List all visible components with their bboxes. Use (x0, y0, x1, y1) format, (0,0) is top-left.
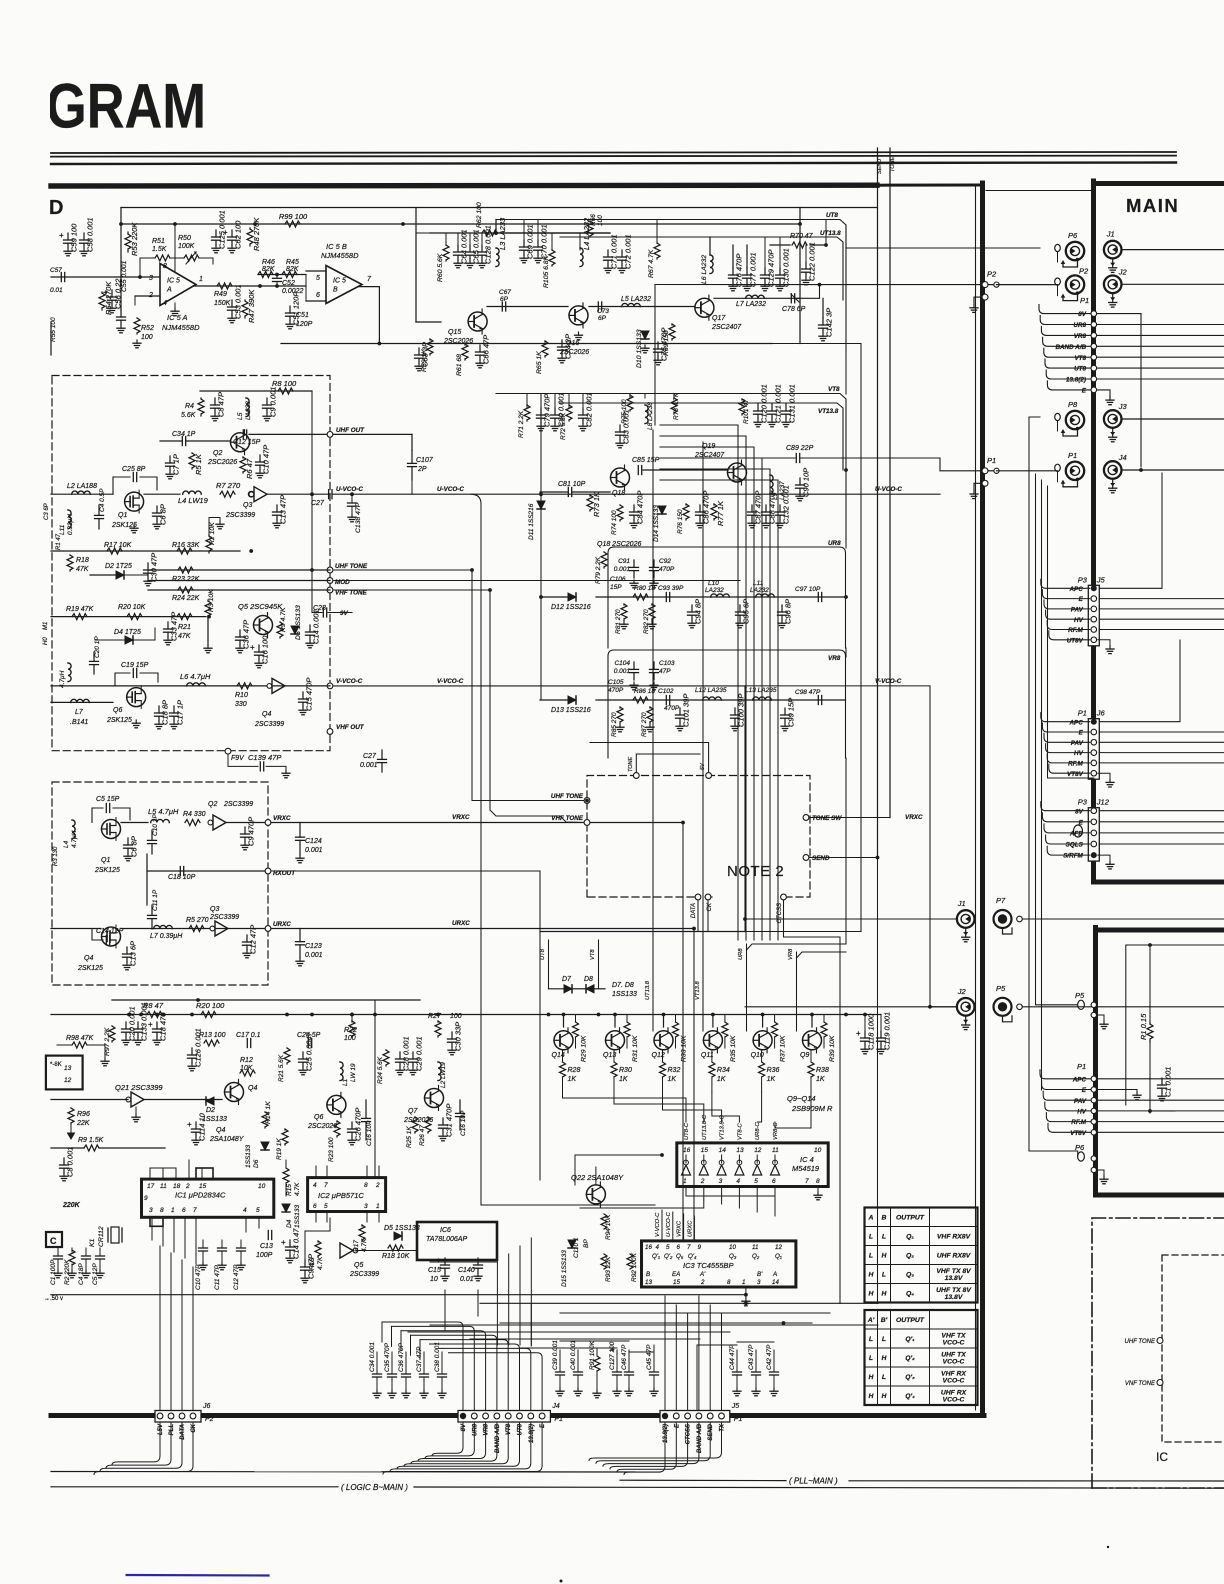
op-amp IC5 B (326, 266, 362, 304)
wire Q19 out (747, 457, 796, 459)
svg-text:7: 7 (687, 1244, 691, 1251)
capacitor C51 120P (286, 292, 301, 329)
transistor Q5 2SC945K (254, 613, 273, 638)
svg-text:D13 1SS216: D13 1SS216 (551, 707, 591, 714)
svg-text:R53 220K: R53 220K (130, 222, 139, 256)
resistor R17 4.7K (359, 1225, 365, 1241)
wire J12 row 1 right (1099, 821, 1224, 823)
inductor L5 LA233 (246, 398, 249, 417)
pin3 wire (121, 276, 160, 278)
J4 riser bundle (382, 1322, 463, 1410)
svg-text:R29 10K: R29 10K (581, 1035, 588, 1062)
svg-text:3: 3 (364, 1203, 368, 1210)
resistor R10 330 (237, 683, 252, 689)
caps row link wires (520, 1347, 617, 1349)
svg-text:1K: 1K (619, 1076, 628, 1083)
page-edge clip over title G (0, 60, 50, 150)
svg-text:5.6K: 5.6K (181, 412, 196, 419)
resistor R33 10K (675, 1015, 677, 1023)
vertical rail x121 (120, 208, 122, 311)
svg-text:0.001: 0.001 (614, 566, 631, 573)
IC1 top pin wires (149, 1168, 151, 1179)
svg-text:C51 120P: C51 120P (292, 292, 301, 325)
resistor R5 1K (189, 453, 203, 475)
capacitor C123 (296, 929, 305, 959)
svg-text:VCO-C: VCO-C (943, 1378, 965, 1385)
capacitor C17 1P (170, 700, 185, 729)
svg-text:10: 10 (814, 1147, 822, 1154)
svg-text:0.001: 0.001 (614, 668, 631, 675)
header rule 3 (51, 163, 1176, 165)
svg-text:1K: 1K (668, 1076, 677, 1083)
svg-text:R16 33K: R16 33K (172, 542, 200, 549)
svg-text:13.8(2): 13.8(2) (663, 1424, 669, 1443)
svg-text:R23 22K: R23 22K (172, 576, 200, 583)
inductor L11 0.33uH (68, 510, 71, 529)
J6 drop curtain (112, 1422, 160, 1465)
svg-text:Q4: Q4 (216, 1127, 225, 1134)
Q22 top wire (595, 1167, 597, 1185)
capacitor C34 0.001 (376, 1352, 378, 1374)
svg-text:14: 14 (772, 1279, 779, 1286)
net label PAV (stackB) (1043, 1091, 1224, 1105)
signal wire Q15-Q17 (487, 306, 568, 308)
svg-text:C27: C27 (311, 500, 325, 507)
VRXC long wire (271, 822, 683, 824)
resistor R16 33K (177, 548, 192, 554)
capacitor C76 470P (729, 254, 744, 291)
svg-text:1: 1 (376, 1203, 380, 1210)
inductor L4 LA232 (580, 217, 591, 267)
capacitor C118 1000 (864, 1015, 866, 1032)
ground C103 (650, 682, 658, 690)
svg-text:C11 47P: C11 47P (214, 1265, 221, 1290)
svg-text:D8: D8 (584, 976, 593, 983)
svg-text:17: 17 (147, 1183, 155, 1190)
junction Q11 (711, 1013, 715, 1017)
wire DATA drop (697, 900, 699, 932)
capacitor C53 0.001 (228, 284, 243, 322)
svg-text:11: 11 (772, 1147, 779, 1154)
svg-text:VNF TONE: VNF TONE (1125, 1381, 1156, 1387)
svg-text:2SC3399: 2SC3399 (223, 801, 253, 808)
resistor R54 270K (99, 281, 113, 315)
ground C123 (296, 958, 304, 966)
svg-text:PLL: PLL (169, 1424, 175, 1436)
svg-text:VCO-C: VCO-C (943, 1359, 965, 1366)
net label VT8V (stackB) (1048, 1123, 1224, 1137)
capacitor C93 39P (666, 593, 669, 602)
svg-text:6: 6 (313, 1203, 317, 1210)
resistor R34 1K (711, 1050, 713, 1062)
svg-text:*-8K: *-8K (50, 1062, 62, 1068)
riser bundle IC2-J4 (496, 1262, 498, 1345)
capacitor C72 0.001 (618, 234, 633, 272)
IC4 buffer 3 (717, 1160, 726, 1175)
svg-text:C62 100: C62 100 (234, 220, 243, 249)
svg-text:C34 1P: C34 1P (172, 431, 196, 438)
wire left entry (51, 276, 121, 278)
capacitor C95 6P (736, 599, 751, 628)
IC4 buffer 5 (753, 1160, 762, 1175)
transistor Q12 2SB909M (654, 1028, 673, 1053)
capacitor C5 bracket (92, 808, 103, 823)
wire Q14 top (563, 1015, 565, 1028)
FET Q4 2SK125 (RX) (102, 925, 121, 948)
svg-text:C58 0.001: C58 0.001 (86, 217, 95, 252)
svg-text:R81 270: R81 270 (615, 609, 622, 634)
svg-text:C122 0.001: C122 0.001 (808, 242, 817, 281)
svg-text:D15 1SS133: D15 1SS133 (561, 1250, 568, 1287)
svg-text:2: 2 (700, 1178, 705, 1185)
svg-text:R25 1K: R25 1K (406, 1126, 413, 1148)
svg-text:UHF TONE: UHF TONE (335, 563, 368, 570)
svg-text:C11 1P: C11 1P (152, 889, 159, 911)
svg-text:R48 270K: R48 270K (252, 217, 261, 251)
svg-text:Q3: Q3 (243, 502, 252, 509)
resistor R65 1K (542, 341, 548, 357)
connector plug P2 (upper) (1055, 267, 1089, 301)
pin L5V of J6/P2 (157, 1413, 163, 1419)
svg-text:DATA: DATA (180, 1424, 186, 1440)
svg-text:R77 1K: R77 1K (716, 500, 725, 526)
svg-text:SEND: SEND (708, 1423, 714, 1440)
wire D2 (90, 574, 116, 576)
svg-text:UHF RX: UHF RX (941, 1390, 967, 1397)
wire D13 (540, 699, 568, 701)
buffer Q21 (126, 1092, 144, 1107)
svg-text:P1: P1 (1080, 296, 1089, 305)
resistor R15 4.7K (285, 1160, 287, 1168)
svg-text:100: 100 (141, 334, 153, 341)
diode D13 1SS216 (568, 696, 576, 704)
svg-text:1K: 1K (767, 1076, 776, 1083)
capacitor C26 470P (348, 1108, 363, 1145)
svg-text:C65 0.001: C65 0.001 (472, 229, 481, 264)
svg-text:C84 470P: C84 470P (636, 491, 645, 524)
wire UT13.8 drop (652, 430, 654, 1031)
svg-text:L13 LA235: L13 LA235 (745, 687, 777, 694)
svg-text:C123: C123 (305, 943, 322, 950)
capacitor C120 0.001 (754, 384, 769, 427)
node VHF TONE (right) (1157, 1380, 1163, 1386)
svg-text:L: L (869, 1234, 873, 1241)
svg-text:Q15: Q15 (448, 329, 461, 336)
svg-text:HV: HV (1077, 1109, 1087, 1116)
capacitor C73 6P (598, 302, 601, 311)
resistor R45 82K (282, 272, 297, 278)
svg-text:C27: C27 (363, 753, 377, 760)
wire P6 feed (846, 247, 1040, 249)
wire to P2 (795, 285, 820, 299)
capacitor C15 470P (299, 678, 314, 715)
svg-text:C12 47P: C12 47P (233, 1264, 240, 1290)
capacitor C14 bracket (92, 929, 103, 941)
capacitor C140 0.01 (474, 1258, 483, 1281)
junction C118 (844, 1013, 848, 1017)
svg-text:L2 LA188: L2 LA188 (67, 483, 97, 490)
transistor Q17 2SC2407 (695, 295, 714, 320)
wire J4 to right (1122, 469, 1224, 471)
svg-text:VHF TX: VHF TX (941, 1333, 966, 1340)
resistor R20 10K (127, 614, 142, 620)
svg-text:10K: 10K (240, 1065, 253, 1072)
svg-text:Q4: Q4 (262, 711, 271, 718)
P1/J6 ground (1098, 773, 1110, 779)
svg-text:0.001: 0.001 (360, 762, 378, 769)
wire VHFTONE drop (490, 590, 584, 823)
pin8 vertical (174, 224, 176, 271)
wire UHFOUT ext (333, 433, 412, 435)
resistor R59 1K (427, 339, 433, 355)
wire R22 branch (350, 1013, 354, 1017)
resistor R39 10K (823, 1015, 825, 1023)
svg-text:UHF TX 8V: UHF TX 8V (936, 1287, 972, 1294)
svg-text:UR8: UR8 (738, 948, 744, 960)
wire Q3 out (267, 493, 330, 495)
wire J6 row 1 right (1099, 731, 1224, 733)
PLL board top thick border (51, 182, 877, 188)
svg-text:C30 33P: C30 33P (454, 1022, 463, 1051)
wire R46 R45 (258, 274, 306, 276)
svg-text:10: 10 (430, 1276, 438, 1283)
svg-text:Q₂: Q₂ (906, 1253, 914, 1260)
diode D4 1SS133 (282, 1204, 290, 1212)
svg-text:C82 0.001: C82 0.001 (585, 392, 594, 427)
svg-text:R31 10K: R31 10K (632, 1035, 639, 1062)
svg-text:C79 470P: C79 470P (543, 394, 552, 427)
MAIN board B bottom thick border (1096, 1193, 1224, 1198)
URXC long wire (271, 928, 694, 930)
diode D12 1SS216 (568, 593, 576, 601)
capacitor C30 47P (144, 553, 159, 586)
capacitor C38 0.001 (441, 1352, 443, 1374)
svg-text:82K: 82K (286, 266, 299, 273)
VHF VCO row (51, 685, 330, 687)
node V-VCO-C (327, 683, 333, 689)
net label RF.M (stackB) (1046, 1113, 1224, 1127)
wire 5V up-left (590, 743, 709, 773)
capacitor C42 47P (773, 1350, 775, 1372)
resistor R27 100 (435, 1021, 441, 1037)
junction Q12 (662, 1013, 666, 1017)
svg-text:C57: C57 (50, 267, 62, 274)
capacitor C4 0.5P (95, 505, 104, 529)
rx mid vertical (146, 854, 148, 905)
wire J2 left (745, 1006, 957, 1008)
bundle top corners (660, 424, 738, 426)
ground R52 (133, 340, 141, 348)
svg-text:C14 0.47: C14 0.47 (292, 1228, 301, 1259)
pin APC of P3/J5 (1041, 579, 1097, 593)
svg-text:BAND A/B: BAND A/B (495, 1423, 501, 1453)
svg-text:C88 470P: C88 470P (768, 491, 777, 524)
svg-text:L7: L7 (75, 709, 84, 716)
svg-text:100K: 100K (178, 243, 195, 250)
svg-text:D2 1T25: D2 1T25 (105, 563, 132, 570)
resistor R47 390K (242, 289, 256, 323)
svg-text:L2 LW19: L2 LW19 (440, 1062, 447, 1088)
svg-text:C3 6P: C3 6P (44, 503, 50, 520)
node RXOUT (265, 868, 271, 874)
resistor R72 5.8K (566, 405, 572, 421)
resistor R36 1K (761, 1050, 763, 1062)
svg-text:D6: D6 (253, 1159, 260, 1168)
svg-text:C26 470P: C26 470P (354, 1108, 363, 1141)
junction Q14 (562, 1013, 566, 1017)
plug P7 (994, 896, 1023, 934)
inductor L10 4.7uH (68, 663, 71, 682)
svg-text:R37 10K: R37 10K (780, 1035, 787, 1062)
resistor R9 1.5K (84, 1145, 99, 1151)
box C label (46, 1232, 62, 1247)
svg-text:Q'₃: Q'₃ (905, 1374, 915, 1381)
svg-text:R60 5.6K: R60 5.6K (437, 253, 444, 282)
svg-text:HV: HV (1074, 750, 1084, 757)
svg-text:Q9: Q9 (800, 1052, 809, 1059)
verticals from RX to IC3 (682, 823, 684, 1241)
inductor L4 4.7uH (RX) (72, 820, 75, 839)
wire R9 (51, 1147, 84, 1149)
jack J1 (lower) (957, 899, 975, 942)
svg-text:R66: R66 (590, 214, 597, 226)
capacitor C9 47P (301, 1254, 316, 1283)
svg-text:13.8(2): 13.8(2) (529, 1424, 535, 1443)
pin 8V of J4/P1 (460, 1413, 466, 1419)
svg-text:2SC3399: 2SC3399 (225, 512, 255, 519)
svg-text:D12 1SS216: D12 1SS216 (551, 604, 591, 611)
capacitor C1 0.001 (1158, 1067, 1173, 1101)
svg-text:470P: 470P (608, 687, 624, 694)
IC4 buffer 4 (735, 1160, 744, 1175)
svg-text:IC1 μPD2834C: IC1 μPD2834C (175, 1191, 226, 1200)
svg-text:R67 4.7K: R67 4.7K (648, 249, 655, 278)
vertical rail x800 (799, 208, 801, 344)
wire C right part (414, 1487, 1224, 1488)
capacitor C78 6P (791, 294, 794, 303)
svg-text:6: 6 (316, 292, 320, 299)
svg-text:16: 16 (645, 1244, 652, 1251)
node MOD (327, 578, 333, 584)
svg-text:R96: R96 (77, 1111, 90, 1118)
svg-text:C128 0.001: C128 0.001 (484, 225, 493, 264)
svg-text:C124: C124 (305, 838, 322, 845)
inductor L3 LA233 (496, 217, 507, 267)
net label HV (stackB) (1045, 1102, 1224, 1116)
MAIN board B left thick border (1093, 928, 1098, 1196)
svg-text:R14 1K: R14 1K (265, 1101, 272, 1124)
capacitor C77 0.001 (743, 252, 758, 290)
feedback wire (140, 257, 155, 259)
svg-text:5: 5 (324, 1203, 328, 1210)
svg-text:C103: C103 (659, 660, 675, 667)
capacitor C36 470P (405, 1352, 407, 1374)
svg-text:R19 1K: R19 1K (276, 1138, 283, 1160)
capacitor C19 bracket (115, 673, 130, 686)
ground C91 (630, 580, 638, 588)
pin 8V of P3/J12 (1041, 802, 1097, 816)
svg-text:R54 270K: R54 270K (104, 281, 113, 315)
svg-text:C16 100: C16 100 (261, 635, 270, 664)
VT8 rail (496, 394, 846, 541)
svg-text:C92: C92 (659, 558, 671, 565)
svg-text:47P: 47P (659, 668, 671, 675)
svg-text:4.7K: 4.7K (317, 1256, 324, 1270)
svg-text:VRXC: VRXC (677, 1220, 683, 1237)
ground R85 (616, 724, 624, 732)
transistor Q19 2SC2407 (728, 460, 747, 485)
driver base routing (563, 1092, 687, 1122)
x846 vertical bridges (845, 352, 847, 394)
svg-text:C7 1P: C7 1P (172, 454, 181, 475)
svg-text:L11: L11 (59, 524, 66, 535)
transistor Q9 2SB909M (803, 1028, 822, 1053)
junction (1148, 1109, 1152, 1113)
svg-text:2SA1048Y: 2SA1048Y (209, 1136, 245, 1143)
transistor Q15 2SC2026 (468, 309, 487, 334)
svg-text:D11 1SS216: D11 1SS216 (528, 503, 535, 540)
wire J12 row 0 right (1099, 810, 1224, 812)
svg-text:URXC: URXC (687, 1220, 693, 1237)
capacitor C102 470P (666, 696, 669, 705)
svg-text:C10 47P: C10 47P (262, 445, 271, 474)
capacitor C74 2P (558, 334, 573, 363)
svg-text:NJM4558D: NJM4558D (162, 323, 200, 332)
pin PLL of J6/P2 (168, 1413, 174, 1419)
svg-text:C13: C13 (260, 1243, 273, 1250)
svg-text:C29 0.001: C29 0.001 (415, 1036, 424, 1071)
svg-text:R52: R52 (141, 325, 154, 332)
capacitor C18 10P (180, 867, 183, 876)
resistor R13 100 (204, 1040, 219, 1046)
svg-text:L5V: L5V (158, 1423, 164, 1435)
capacitor C28 0.001 (396, 1036, 411, 1074)
capacitor C19 15P (133, 669, 136, 678)
svg-text:C114 10: C114 10 (198, 1112, 207, 1141)
capacitor C130 0.001 (776, 248, 791, 291)
rail x416 (415, 208, 417, 323)
ground C92 (650, 580, 658, 588)
svg-text:18: 18 (173, 1183, 181, 1190)
UT13.8 hang wires (709, 237, 711, 255)
capacitor C46 47P (628, 1350, 630, 1372)
svg-text:Q2: Q2 (213, 450, 222, 457)
svg-text:C142 3P: C142 3P (825, 308, 834, 337)
svg-text:V-VCO-C: V-VCO-C (655, 1212, 661, 1237)
capacitor C12 47P (240, 1240, 242, 1248)
resistor R49 150K (217, 283, 232, 289)
capacitor C12 15P (243, 430, 246, 439)
capacitor C98 47P (818, 696, 821, 705)
svg-text:1K: 1K (816, 1076, 825, 1083)
capacitor C16 10P (456, 1100, 465, 1130)
capacitor C25 0.0047 (299, 1031, 314, 1074)
capacitor C5 15P (106, 804, 109, 813)
node U-VCO-C (248, 491, 254, 497)
capacitor C35 470P (391, 1352, 393, 1374)
svg-text:Q₃: Q₃ (729, 1253, 737, 1260)
svg-text:2SC2407: 2SC2407 (711, 324, 742, 331)
capacitor C104 0.001 (630, 662, 639, 680)
VR8 signal wire (596, 699, 846, 701)
resistor R21 5.6K(m) (284, 1048, 290, 1064)
svg-text:J6: J6 (1096, 709, 1106, 718)
wire J6 row 2 right (1099, 741, 1224, 743)
capacitor C64 0.001 (454, 229, 469, 267)
svg-text:100P: 100P (256, 1252, 273, 1259)
x861 vertical (860, 344, 862, 932)
svg-text:APC: APC (1072, 1076, 1087, 1083)
